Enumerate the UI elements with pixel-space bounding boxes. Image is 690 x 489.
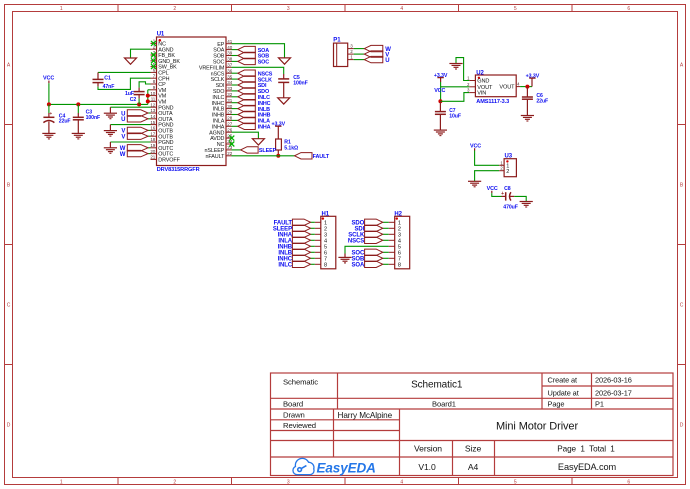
ground H2 pin5 — [338, 257, 351, 263]
wire SDO — [232, 90, 238, 92]
svg-text:13: 13 — [150, 108, 155, 113]
wire P1 U — [354, 59, 365, 61]
net label U P1 — [385, 58, 389, 64]
net flag SDI — [238, 82, 256, 88]
capacitor C4 — [43, 104, 54, 133]
ground PGND pin12 — [104, 113, 117, 119]
net label VCC U2 — [434, 88, 445, 94]
wire OUTU pin14 — [148, 118, 151, 120]
svg-text:5: 5 — [514, 6, 517, 12]
wire H1 pin6 — [311, 251, 315, 253]
svg-text:4: 4 — [400, 6, 403, 12]
no-connect X pin 24 NC — [229, 142, 234, 147]
net label U pin13 — [121, 111, 125, 117]
H2 refdes — [394, 211, 402, 217]
net flag SOB H2 — [365, 255, 383, 261]
net label INHA — [258, 125, 271, 131]
wire SOC — [232, 60, 238, 62]
svg-text:6: 6 — [627, 479, 630, 485]
net flag V P1 — [364, 51, 383, 57]
wire junction to VIN — [440, 93, 469, 102]
ground PGND pin18 — [104, 148, 117, 154]
net flag INHB — [238, 111, 256, 117]
H1 refdes — [322, 211, 330, 217]
svg-text:470uF: 470uF — [503, 205, 518, 211]
net label INHB — [258, 113, 271, 119]
op-amp U1 DRV8315RRGFR body — [150, 37, 232, 166]
svg-text:nFAULT: nFAULT — [206, 154, 226, 160]
svg-text:15: 15 — [150, 120, 155, 125]
wire VCC to C8 — [492, 193, 502, 196]
power flag +3.3V U2 left — [434, 73, 448, 79]
wire INLB — [232, 108, 238, 110]
wire VREF/ILIM to C5 — [232, 67, 284, 74]
net label SDI H2 — [354, 227, 364, 233]
wire SOA — [232, 49, 238, 51]
svg-text:Create at: Create at — [548, 376, 578, 385]
C7 value 10uF — [449, 114, 461, 120]
wire INHA — [232, 125, 238, 127]
C3 value 100nF — [86, 115, 101, 121]
svg-text:Board: Board — [283, 400, 303, 409]
svg-text:C8: C8 — [504, 186, 511, 192]
net flag U pin14 — [127, 116, 148, 122]
svg-text:SOA: SOA — [351, 263, 364, 269]
net label INHA H1 — [278, 233, 293, 239]
svg-text:VCC: VCC — [470, 143, 481, 149]
svg-text:D: D — [680, 423, 684, 429]
svg-text:Board1: Board1 — [432, 400, 456, 409]
R1 stem top — [277, 126, 279, 139]
resistor R1 — [276, 139, 282, 150]
svg-text:Version: Version — [414, 443, 442, 453]
ground under C6 — [521, 116, 534, 122]
svg-text:20: 20 — [150, 149, 155, 154]
net label INLC H1 — [278, 263, 292, 269]
svg-text:VOUT: VOUT — [499, 85, 515, 91]
title block text — [283, 376, 632, 473]
svg-text:1: 1 — [60, 6, 63, 12]
wire C8 to ground — [514, 196, 526, 201]
net flag U pin13 — [127, 110, 148, 116]
net label SCLK H2 — [348, 233, 365, 239]
wire P1 W — [354, 48, 365, 50]
net flag SOC H2 — [365, 249, 383, 255]
C5 refdes — [293, 75, 300, 81]
net flag INHB H1 — [292, 243, 310, 249]
ground GND AGND — [125, 58, 137, 64]
R1 stem bottom — [277, 150, 279, 156]
PGND pin18 stem — [109, 142, 111, 148]
U1 refdes — [157, 32, 165, 38]
svg-text:14: 14 — [150, 114, 155, 119]
net label INHC — [258, 101, 271, 107]
wire H2 pin5 to ground — [345, 246, 389, 253]
net flag V pin16 — [127, 127, 148, 133]
wire OUTW pin20 — [148, 153, 151, 155]
ground under C3 — [72, 133, 85, 139]
no-connect X pin 3 — [151, 53, 156, 58]
wire H1 pin8 — [311, 263, 315, 265]
svg-text:SLEEP: SLEEP — [259, 148, 277, 154]
wire H1 pin3 — [311, 233, 315, 235]
H2 pin5 ground stem — [344, 254, 346, 258]
ground under C7 — [434, 130, 447, 136]
C4 value 22uF — [59, 119, 71, 125]
svg-text:EasyEDA.com: EasyEDA.com — [558, 462, 617, 472]
wire U2 VOUT right — [520, 86, 532, 88]
wire INHB — [232, 114, 238, 116]
wire EP pin41 — [232, 44, 285, 58]
svg-text:Mini Motor Driver: Mini Motor Driver — [496, 420, 578, 432]
wire VM rail — [49, 103, 148, 105]
+3.3V stub U2 right — [531, 78, 533, 87]
net label SOC — [258, 60, 270, 66]
no-connect X pin 5 — [151, 64, 156, 69]
svg-text:8: 8 — [324, 262, 327, 268]
wire AGND pin2 — [131, 49, 151, 58]
power flag VCC C8 — [487, 186, 498, 192]
net label NSCS — [258, 71, 273, 77]
svg-text:+: + — [50, 111, 53, 116]
capacitor C2 — [134, 88, 145, 99]
junction VM pin10 — [146, 94, 150, 98]
svg-text:GND: GND — [477, 79, 489, 85]
power flag VCC U3 — [470, 143, 481, 149]
svg-text:22uF: 22uF — [59, 119, 71, 125]
net label INLB H1 — [278, 251, 292, 257]
net flag SOA H2 — [365, 261, 383, 267]
capacitor C1 — [93, 72, 104, 86]
net label SOC H2 — [351, 251, 364, 257]
power flag +3.3V U2 right — [526, 74, 540, 80]
wire H2 pin3 — [383, 233, 389, 235]
svg-text:16: 16 — [150, 126, 155, 131]
svg-text:4: 4 — [400, 479, 403, 485]
net flag SCLK — [238, 76, 256, 82]
wire nFAULT — [232, 155, 295, 157]
net flag SOB — [238, 52, 256, 58]
wire C2 to rail — [138, 99, 140, 105]
junction C3 rail — [76, 102, 80, 106]
svg-text:D: D — [7, 423, 11, 429]
ground C8 — [520, 202, 533, 208]
net label SOB H2 — [351, 257, 364, 263]
svg-text:+: + — [501, 191, 504, 197]
net flag NSCS — [238, 70, 256, 76]
net label SOA H2 — [351, 263, 364, 269]
svg-text:3: 3 — [287, 6, 290, 12]
svg-text:100nF: 100nF — [293, 81, 308, 87]
junction R1 nFAULT — [276, 154, 280, 158]
no-connect X pin 4 — [151, 58, 156, 63]
power flag +3.3V R1 — [272, 122, 286, 128]
svg-text:DRV8315RRGFR: DRV8315RRGFR — [157, 167, 200, 173]
ground under C4 — [42, 133, 55, 139]
C1 value 47nF — [103, 84, 115, 90]
wire C1 to CPH — [98, 78, 151, 89]
svg-text:17: 17 — [150, 131, 155, 136]
svg-text:2: 2 — [173, 6, 176, 12]
wire P1 V — [354, 53, 365, 55]
svg-text:INHA: INHA — [258, 125, 271, 131]
net label INHC H1 — [278, 257, 293, 263]
wire OUTU pin13 — [148, 112, 151, 114]
wire H1 pin5 — [311, 245, 315, 247]
net flag SOA — [238, 46, 256, 52]
P1 refdes — [333, 38, 341, 44]
net label INLA — [258, 119, 270, 125]
net flag FAULT H1 — [292, 219, 310, 225]
svg-text:8: 8 — [398, 262, 401, 268]
net flag SDI H2 — [365, 225, 383, 231]
wire H2 pin6 — [383, 251, 389, 253]
wire H1 pin1 — [311, 221, 315, 223]
net label SDO — [258, 89, 269, 95]
svg-text:H2: H2 — [394, 211, 402, 217]
net label V pin16 — [121, 129, 125, 135]
svg-text:A4: A4 — [468, 462, 479, 472]
svg-text:Drawn: Drawn — [283, 410, 305, 419]
capacitor C8 — [501, 191, 514, 200]
svg-text:10: 10 — [150, 91, 155, 96]
svg-text:Reviewed: Reviewed — [283, 421, 316, 430]
junction U2 input — [438, 99, 442, 103]
net label SCLK — [258, 77, 272, 83]
wire INLA — [232, 119, 238, 121]
wire VCC to U3 pin1 — [475, 151, 500, 166]
R1 refdes — [284, 140, 291, 146]
wire PGND pin12 — [110, 106, 150, 108]
svg-text:U2: U2 — [476, 70, 484, 76]
net flag INLA — [238, 117, 256, 123]
junction VM pin11 — [146, 99, 150, 103]
svg-text:V1.0: V1.0 — [418, 462, 436, 472]
R1 value 5.1k — [284, 146, 298, 152]
net label SDO H2 — [351, 221, 364, 227]
C6 refdes — [536, 93, 543, 99]
svg-text:2: 2 — [506, 169, 509, 175]
svg-text:DRVOFF: DRVOFF — [158, 158, 180, 164]
wire H1 pin4 — [311, 239, 315, 241]
net flag V pin17 — [127, 133, 148, 139]
net label U pin14 — [121, 117, 125, 123]
C4 refdes — [59, 113, 66, 119]
wire NSCS — [232, 72, 238, 74]
svg-text:U: U — [121, 117, 125, 123]
net flag NSCS H2 — [365, 237, 383, 243]
net label SOB — [258, 54, 270, 60]
svg-text:INLC: INLC — [278, 263, 292, 269]
svg-text:EasyEDA: EasyEDA — [317, 460, 376, 475]
net label INLA H1 — [278, 239, 292, 245]
net flag INLB — [238, 105, 256, 111]
connector H1 body — [315, 216, 336, 268]
connector H2 body — [389, 216, 410, 268]
svg-text:5.1kΩ: 5.1kΩ — [284, 146, 298, 152]
C2 refdes — [130, 97, 137, 103]
C1 refdes — [104, 75, 111, 81]
net flag INHC H1 — [292, 255, 310, 261]
wire H2 pin2 — [383, 227, 389, 229]
svg-text:FAULT: FAULT — [313, 154, 330, 160]
capacitor C3 — [73, 104, 84, 133]
net flag INHC — [238, 100, 256, 106]
ground PGND pin15 — [104, 131, 117, 137]
wire H2 pin8 — [383, 263, 389, 265]
net label FAULT H1 — [274, 221, 293, 227]
C8 refdes — [504, 186, 511, 192]
wire PGND pin15 — [110, 124, 150, 126]
svg-text:W: W — [120, 152, 126, 158]
svg-text:H1: H1 — [322, 211, 330, 217]
C6 value 22uF — [536, 98, 548, 104]
VCC stub — [48, 81, 50, 84]
net flag SOC — [238, 58, 256, 64]
wire OUTV pin16 — [148, 129, 151, 131]
ground under C5 — [278, 98, 290, 104]
+3.3V stub U2 left — [440, 78, 442, 82]
net label W pin19 — [120, 146, 126, 152]
svg-text:C2: C2 — [130, 97, 137, 103]
wire VM pin11 stub — [148, 100, 151, 102]
net label SOA — [258, 48, 270, 54]
svg-text:Schematic: Schematic — [283, 377, 318, 386]
svg-text:U3: U3 — [505, 154, 513, 160]
wire AGND pin26 — [232, 132, 259, 139]
U1 value DRV8315RRGFR — [157, 167, 200, 173]
no-connect X pin 1 — [151, 41, 156, 46]
wire H2 pin1 — [383, 221, 389, 223]
capacitor C5 — [278, 74, 289, 98]
C2 value 1uF — [125, 91, 134, 97]
svg-text:NSCS: NSCS — [348, 239, 364, 245]
junction VCC rail — [47, 102, 51, 106]
net flag INLA H1 — [292, 237, 310, 243]
wire PGND pin18 — [110, 141, 150, 143]
svg-text:P1: P1 — [333, 38, 341, 44]
wire OUTW pin19 — [148, 147, 151, 149]
title block grid — [271, 373, 674, 476]
ground U2 GND — [449, 64, 462, 70]
net flag INLB H1 — [292, 249, 310, 255]
net flag SDO H2 — [365, 219, 383, 225]
svg-text:VCC: VCC — [434, 88, 445, 94]
net label W pin20 — [120, 152, 126, 158]
PGND pin15 stem — [109, 125, 111, 131]
ground GND AGND right — [252, 139, 264, 145]
svg-text:18: 18 — [150, 137, 155, 142]
svg-text:38: 38 — [227, 57, 232, 62]
PGND pin12 stem — [109, 107, 111, 113]
svg-text:C1: C1 — [104, 75, 111, 81]
VCC stub C8 — [491, 191, 493, 193]
net label V P1 — [385, 53, 389, 59]
svg-text:2026-03-17: 2026-03-17 — [595, 388, 632, 397]
VCC stub U3 — [474, 148, 476, 150]
U2 refdes — [476, 70, 484, 76]
net label V pin17 — [121, 135, 125, 141]
wire nSLEEP — [232, 149, 241, 151]
svg-text:2: 2 — [173, 479, 176, 485]
wire VM riser — [147, 90, 149, 105]
svg-text:AMS1117-3.3: AMS1117-3.3 — [476, 99, 509, 105]
net label FAULT — [313, 154, 330, 160]
C8 value 470uF — [503, 205, 518, 211]
ground U3 — [468, 181, 481, 187]
svg-text:Page: Page — [548, 400, 565, 409]
svg-text:U1: U1 — [157, 32, 165, 38]
svg-text:Schematic1: Schematic1 — [411, 379, 463, 390]
wire +3.3V to junction — [440, 82, 442, 101]
wire CPL pin6 — [98, 71, 151, 73]
net label W P1 — [385, 47, 391, 53]
wire INLC — [232, 96, 238, 98]
C5 value 100nF — [293, 81, 308, 87]
net label SLEEP — [259, 148, 277, 154]
net label SLEEP H1 — [273, 227, 292, 233]
C3 refdes — [86, 109, 93, 115]
wire U3 pin2 to ground — [475, 171, 500, 182]
capacitor C6 — [522, 87, 533, 116]
svg-text:C: C — [7, 303, 11, 309]
capacitor C7 — [435, 101, 446, 130]
ground GND EP — [279, 58, 291, 64]
wire INHC — [232, 102, 238, 104]
wire SDI — [232, 84, 238, 86]
net label NSCS H2 — [348, 239, 364, 245]
net label INLC — [258, 95, 270, 101]
wire VCC to VOUT — [441, 86, 470, 88]
U3 refdes — [505, 154, 513, 160]
svg-text:3: 3 — [287, 479, 290, 485]
svg-text:SOC: SOC — [258, 60, 270, 66]
net flag SLEEP — [241, 147, 259, 153]
net flag U P1 — [364, 56, 383, 62]
svg-text:12: 12 — [150, 102, 155, 107]
connector U3 body — [499, 159, 516, 177]
wire SOB — [232, 55, 238, 57]
svg-text:100nF: 100nF — [86, 115, 101, 121]
svg-text:C: C — [680, 303, 684, 309]
no-connect X pin 25 AVDD — [229, 136, 234, 141]
net flag SCLK H2 — [365, 231, 383, 237]
net flag SDO — [238, 88, 256, 94]
svg-text:Harry McAlpine: Harry McAlpine — [338, 411, 393, 420]
svg-text:6: 6 — [627, 6, 630, 12]
net flag W P1 — [364, 45, 383, 51]
net label INLB — [258, 107, 270, 113]
wire VM pin10 stub — [148, 95, 151, 97]
svg-text:VIN: VIN — [477, 91, 486, 97]
net flag FAULT — [295, 153, 313, 159]
net flag INHA H1 — [292, 231, 310, 237]
wire C2 to CP — [139, 82, 150, 88]
net flag INHA — [238, 123, 256, 129]
net flag W pin19 — [127, 145, 148, 151]
svg-text:P1: P1 — [595, 400, 604, 409]
svg-text:Update at: Update at — [548, 388, 579, 397]
wire SCLK — [232, 78, 238, 80]
net flag INLC — [238, 94, 256, 100]
svg-text:21: 21 — [150, 155, 155, 160]
svg-text:19: 19 — [150, 143, 155, 148]
wire GND pin U2 — [456, 58, 469, 81]
net label SDI — [258, 83, 267, 89]
svg-text:5: 5 — [514, 479, 517, 485]
svg-text:10uF: 10uF — [449, 114, 461, 120]
wire H2 pin7 — [383, 257, 389, 259]
